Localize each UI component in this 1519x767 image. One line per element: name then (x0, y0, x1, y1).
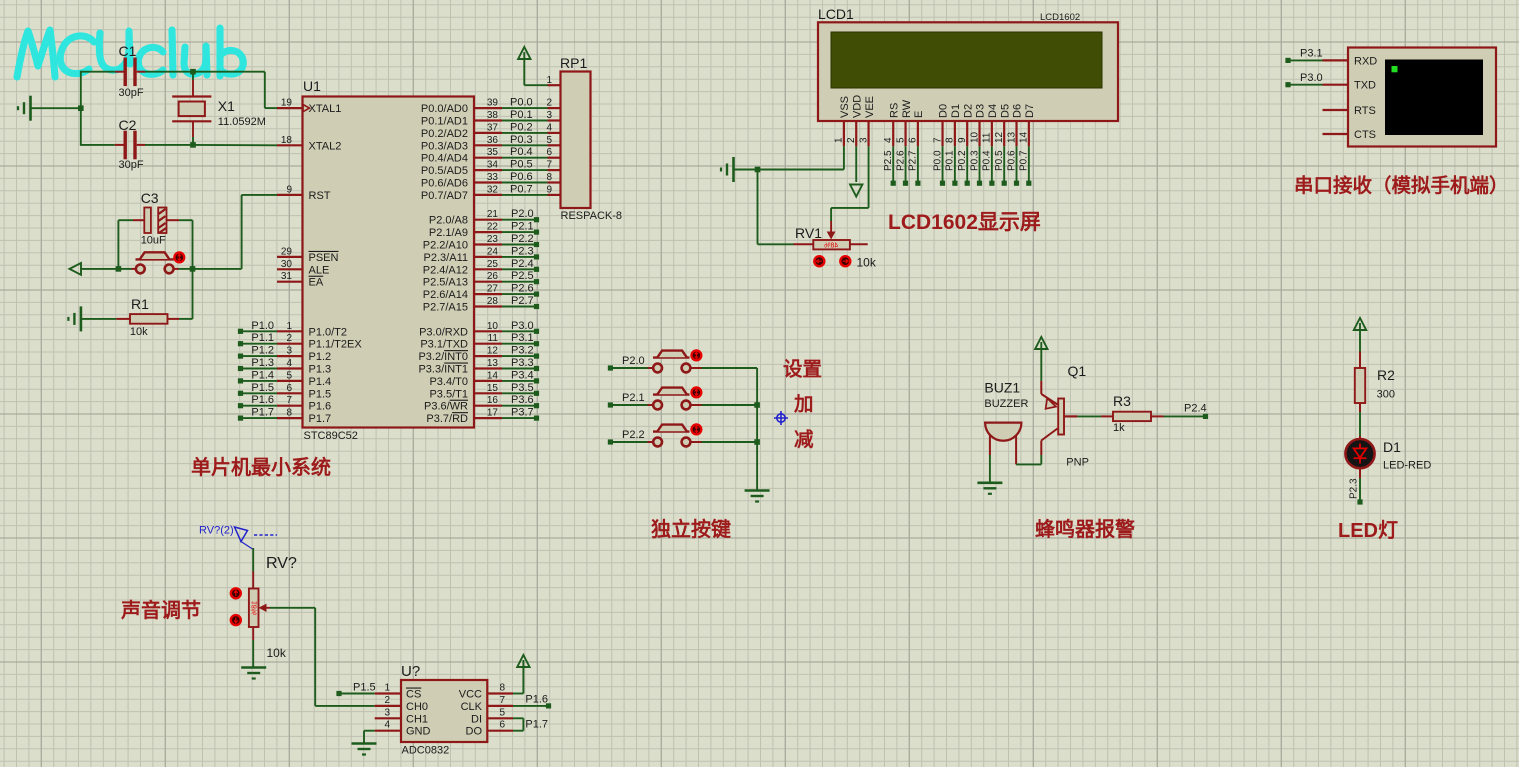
pin 18 XTAL2 (277, 144, 303, 146)
svg-text:P0.6: P0.6 (510, 171, 533, 183)
svg-text:10k: 10k (130, 326, 148, 338)
svg-text:P1.2: P1.2 (309, 351, 332, 363)
svg-text:19: 19 (281, 98, 293, 109)
svg-text:P0.5: P0.5 (510, 159, 533, 171)
svg-text:P3.2/INT0: P3.2/INT0 (418, 351, 468, 363)
push button key P2.1 (608, 402, 613, 407)
svg-text:11: 11 (982, 132, 993, 143)
svg-text:P1.4: P1.4 (309, 376, 332, 388)
svg-text:加: 加 (793, 394, 814, 416)
ADC pin 3 CH1 (375, 717, 401, 719)
svg-text:P1.3: P1.3 (251, 357, 274, 369)
svg-text:P1.5: P1.5 (251, 382, 274, 394)
pin 1 P1.0 (277, 330, 303, 332)
LCD pin 12 D5 (1003, 121, 1005, 146)
svg-text:10k: 10k (267, 646, 287, 660)
svg-text:34: 34 (487, 160, 499, 171)
LCD VDD power down arrow (855, 146, 857, 182)
node P3.0 (1285, 82, 1290, 87)
LCD pin 13 D6 (1015, 121, 1017, 146)
svg-text:Q1: Q1 (1068, 363, 1087, 379)
svg-text:P2.0: P2.0 (622, 355, 645, 367)
svg-text:30pF: 30pF (119, 87, 144, 99)
pin 29 PSEN (277, 256, 303, 258)
svg-text:15: 15 (487, 383, 499, 394)
svg-text:26: 26 (487, 271, 499, 282)
svg-text:9: 9 (546, 184, 552, 195)
svg-text:C3: C3 (141, 190, 159, 206)
svg-text:10: 10 (487, 321, 499, 332)
svg-text:LCD1: LCD1 (818, 6, 854, 22)
svg-text:D5: D5 (999, 104, 1011, 118)
svg-text:P2.2: P2.2 (622, 429, 645, 441)
wire junction to RV1 (757, 170, 759, 245)
svg-text:23: 23 (487, 234, 499, 245)
svg-text:P2.3: P2.3 (511, 245, 534, 257)
node P1.4 (238, 378, 243, 383)
wire C3 left vertical (117, 220, 119, 269)
terminal pin TXD (1323, 84, 1349, 86)
LCD pin 3 VEE (867, 121, 869, 146)
LCD wire net P0.3 (979, 146, 981, 181)
svg-text:RST: RST (309, 190, 331, 202)
svg-text:CH1: CH1 (406, 713, 428, 725)
svg-text:8: 8 (499, 683, 505, 694)
op-amp U1 body (STC89C52 MCU) (303, 97, 475, 428)
svg-text:P3.5/T1: P3.5/T1 (429, 388, 468, 400)
svg-text:P1.5: P1.5 (309, 388, 332, 400)
svg-text:35: 35 (487, 147, 499, 158)
svg-text:X1: X1 (218, 98, 235, 114)
ADC pin 2 CH0 (375, 705, 401, 707)
svg-text:独立按键: 独立按键 (651, 517, 731, 541)
ADC pin 8 VCC (487, 692, 513, 694)
svg-text:CH0: CH0 (406, 701, 428, 713)
svg-text:RXD: RXD (1354, 55, 1377, 67)
ADC VCC power (513, 693, 523, 695)
svg-text:STC89C52: STC89C52 (304, 430, 358, 442)
svg-text:D6: D6 (1012, 104, 1024, 118)
pin 5 P1.4 (277, 380, 303, 382)
wire C1 to X1 top (145, 71, 193, 73)
svg-text:RV1: RV1 (795, 225, 822, 241)
LCD wire net P0.4 (991, 146, 993, 181)
svg-text:D7: D7 (1024, 104, 1036, 118)
node P1.2 (238, 354, 243, 359)
wire R1 to reset node (192, 269, 194, 319)
svg-text:10k: 10k (857, 256, 877, 270)
svg-text:P2.0: P2.0 (511, 208, 534, 220)
potentiometer RV1 (830, 221, 832, 234)
LCD wire net P0.7 (1028, 146, 1030, 181)
RV? adjust buttons (231, 588, 241, 598)
svg-text:3: 3 (384, 707, 390, 718)
pin 6 P1.5 (277, 392, 303, 394)
svg-text:4: 4 (286, 358, 292, 369)
svg-text:U1: U1 (303, 78, 321, 94)
svg-text:RESPACK-8: RESPACK-8 (561, 210, 623, 222)
wire C1 row left (81, 71, 115, 73)
node P2.4 (1164, 415, 1204, 417)
MCUclub logo (17, 28, 243, 77)
cursor (1392, 66, 1398, 72)
svg-text:7: 7 (286, 395, 292, 406)
svg-text:4: 4 (883, 137, 894, 143)
svg-text:P2.3/A11: P2.3/A11 (424, 252, 468, 264)
LCD pin 9 D2 (966, 121, 968, 146)
svg-text:5: 5 (499, 707, 505, 718)
svg-text:设置: 设置 (783, 359, 822, 381)
svg-text:P2.5/A13: P2.5/A13 (423, 277, 468, 289)
RV1 adjust buttons (814, 256, 824, 266)
buzzer BUZ1 (985, 423, 1021, 441)
serial terminal (virtual phone) (1348, 48, 1496, 147)
svg-text:P3.6: P3.6 (511, 394, 534, 406)
svg-text:P3.7/RD: P3.7/RD (426, 413, 468, 425)
svg-text:13: 13 (1006, 131, 1017, 143)
ground (crystal section) (29, 96, 32, 121)
svg-text:48%: 48% (824, 242, 838, 249)
svg-text:12: 12 (487, 346, 499, 357)
capacitor C3 (electrolytic) (118, 219, 133, 221)
svg-text:P0.0/AD0: P0.0/AD0 (421, 103, 468, 115)
svg-text:BUZ1: BUZ1 (984, 380, 1020, 396)
svg-text:P0.3: P0.3 (969, 150, 980, 171)
svg-text:2: 2 (384, 695, 390, 706)
svg-text:蜂鸣器报警: 蜂鸣器报警 (1035, 517, 1135, 541)
svg-text:R2: R2 (1377, 367, 1395, 383)
LCD pin 10 D3 (978, 121, 980, 146)
svg-text:P3.1: P3.1 (511, 332, 534, 344)
LCD wire net P0.1 (954, 146, 956, 181)
svg-text:10uF: 10uF (141, 235, 166, 247)
pin 1 RP1 + power (548, 84, 561, 86)
svg-text:减: 减 (794, 428, 814, 451)
RV? wiper (259, 604, 267, 612)
svg-text:RV?(2): RV?(2) (199, 525, 234, 537)
svg-text:14: 14 (487, 370, 499, 381)
svg-text:5: 5 (286, 370, 292, 381)
node key2 junction (754, 402, 760, 408)
LCD VEE wire to RV1 wiper (868, 146, 870, 208)
LCD wire net P0.5 (1003, 146, 1005, 181)
LED D1 (1359, 436, 1361, 439)
svg-text:P0.1: P0.1 (510, 109, 533, 121)
svg-text:P0.2: P0.2 (957, 150, 968, 171)
svg-text:3: 3 (546, 110, 552, 121)
svg-text:D2: D2 (962, 104, 974, 118)
svg-text:7: 7 (546, 160, 552, 171)
svg-text:TXD: TXD (1354, 80, 1376, 92)
svg-text:4: 4 (384, 720, 390, 731)
LCD screen (831, 32, 1102, 88)
ground (ADC) (352, 742, 377, 745)
svg-text:2: 2 (546, 98, 552, 109)
svg-text:30pF: 30pF (119, 159, 144, 171)
svg-text:D1: D1 (950, 104, 962, 118)
svg-text:LED灯: LED灯 (1338, 519, 1398, 542)
svg-text:D3: D3 (975, 104, 987, 118)
node reset-right junction (190, 266, 196, 272)
svg-text:P3.0: P3.0 (511, 320, 534, 332)
svg-text:7: 7 (499, 695, 505, 706)
svg-text:36: 36 (487, 135, 499, 146)
crystal X1 (192, 72, 194, 80)
LCD wire net P0.2 (966, 146, 968, 181)
svg-text:LED-RED: LED-RED (1383, 460, 1431, 472)
svg-text:8: 8 (286, 408, 292, 419)
svg-text:P0.2/AD2: P0.2/AD2 (421, 128, 468, 140)
pin 2 P1.1 (277, 343, 303, 345)
node key3 junction (754, 439, 760, 445)
svg-text:18%: 18% (251, 601, 258, 615)
ground (keys) (745, 489, 770, 492)
wire gnd to node (31, 107, 81, 109)
svg-text:P3.4: P3.4 (511, 369, 534, 381)
svg-text:22: 22 (487, 222, 499, 233)
ADC pin 6 DO (487, 730, 513, 732)
node LCD gnd junction (755, 167, 761, 173)
LCD pin 5 RW (904, 121, 906, 146)
svg-text:P2.7/A15: P2.7/A15 (423, 302, 468, 314)
capacitor C2 (81, 144, 115, 146)
node P1.5 (238, 391, 243, 396)
push button (reset) (118, 268, 131, 270)
svg-text:P2.4: P2.4 (1184, 403, 1207, 415)
LCD pin 7 D0 (941, 121, 943, 146)
svg-text:R3: R3 (1113, 393, 1131, 409)
svg-text:P1.6: P1.6 (525, 694, 548, 706)
push button key P2.0 (608, 365, 613, 370)
resistor R2 (1359, 352, 1361, 369)
power (LED) (1354, 318, 1366, 330)
svg-text:P2.1/A9: P2.1/A9 (429, 227, 468, 239)
LCD pin 4 RS (892, 121, 894, 146)
node P1.5 (336, 691, 341, 696)
DI-DO loop net P1.7 (513, 717, 523, 719)
keys common wire (756, 368, 758, 491)
svg-text:VDD: VDD (851, 95, 863, 118)
svg-text:P1.6: P1.6 (309, 401, 332, 413)
svg-text:P2.3: P2.3 (1349, 478, 1360, 499)
ground (buzzer) (977, 481, 1002, 484)
svg-text:P3.2: P3.2 (511, 345, 534, 357)
svg-text:P1.5: P1.5 (353, 682, 376, 694)
svg-text:38: 38 (487, 110, 499, 121)
svg-text:RTS: RTS (1354, 105, 1376, 117)
RV? bottom to ground (252, 627, 254, 640)
svg-text:P0.7/AD7: P0.7/AD7 (421, 190, 468, 202)
wire left vertical C1-C2 (80, 71, 82, 146)
svg-text:10: 10 (969, 131, 980, 143)
capacitor C1 (115, 71, 124, 73)
svg-text:6: 6 (286, 383, 292, 394)
ADC pin 1 CS (375, 692, 401, 694)
svg-text:P2.5: P2.5 (883, 150, 894, 171)
svg-text:7: 7 (932, 137, 943, 143)
svg-text:300: 300 (1377, 389, 1395, 401)
svg-text:27: 27 (487, 284, 499, 295)
svg-text:ALE: ALE (309, 264, 330, 276)
svg-text:串口接收（模拟手机端）: 串口接收（模拟手机端） (1294, 174, 1509, 197)
terminal pin CTS (1323, 133, 1349, 135)
potentiometer RV? (252, 548, 254, 572)
svg-text:P0.3: P0.3 (510, 134, 533, 146)
node reset-left junction (116, 266, 122, 272)
svg-text:28: 28 (487, 296, 499, 307)
LCD1 LCD1602 body (818, 22, 1118, 121)
LCD pin 1 VSS (843, 121, 845, 146)
svg-text:33: 33 (487, 172, 499, 183)
svg-text:XTAL2: XTAL2 (309, 140, 342, 152)
svg-text:D0: D0 (938, 104, 950, 118)
svg-text:13: 13 (487, 358, 499, 369)
resistor pack RP1 RESPACK-8 (561, 72, 591, 209)
svg-text:PSEN: PSEN (309, 252, 339, 264)
pin 8 P1.7 (277, 417, 303, 419)
svg-text:6: 6 (499, 720, 505, 731)
svg-text:P2.6: P2.6 (511, 283, 534, 295)
node P3.1 (1285, 58, 1290, 63)
svg-text:ADC0832: ADC0832 (402, 745, 450, 757)
svg-text:P2.2/A10: P2.2/A10 (423, 240, 468, 252)
svg-text:VCC: VCC (459, 689, 482, 701)
wire top to XTAL1 (193, 71, 265, 73)
svg-text:P3.0: P3.0 (1300, 72, 1323, 84)
pin 4 P1.3 (277, 367, 303, 369)
svg-text:8: 8 (546, 172, 552, 183)
svg-text:18: 18 (281, 135, 293, 146)
svg-text:P1.1/T2EX: P1.1/T2EX (309, 339, 363, 351)
ground (LCD) (732, 157, 735, 182)
svg-text:25: 25 (487, 259, 499, 270)
svg-text:P1.0: P1.0 (251, 320, 274, 332)
svg-text:3: 3 (858, 137, 869, 143)
svg-text:CLK: CLK (461, 701, 483, 713)
svg-text:P2.7: P2.7 (908, 150, 919, 171)
svg-text:DO: DO (466, 726, 483, 738)
svg-text:PNP: PNP (1066, 457, 1089, 469)
svg-text:1: 1 (384, 683, 390, 694)
ADC pin 4 GND (375, 730, 401, 732)
pin 31 EA (277, 281, 303, 283)
svg-text:RW: RW (901, 99, 913, 118)
node P1.7 (238, 416, 243, 421)
svg-text:P1.0/T2: P1.0/T2 (309, 326, 348, 338)
node P1.1 (238, 341, 243, 346)
crosshair marker (774, 411, 788, 425)
svg-text:D1: D1 (1383, 439, 1401, 455)
svg-text:24: 24 (487, 246, 499, 257)
svg-text:2: 2 (846, 137, 857, 143)
svg-text:P2.5: P2.5 (511, 270, 534, 282)
svg-text:8: 8 (945, 137, 956, 143)
svg-text:16: 16 (487, 395, 499, 406)
svg-text:P1.7: P1.7 (309, 413, 332, 425)
svg-text:P3.4/T0: P3.4/T0 (429, 376, 468, 388)
svg-text:P2.7: P2.7 (511, 295, 534, 307)
svg-text:P0.5: P0.5 (994, 150, 1005, 171)
svg-text:P1.4: P1.4 (251, 369, 274, 381)
svg-text:EA: EA (309, 277, 324, 289)
svg-text:P0.1: P0.1 (945, 150, 956, 171)
push button key P2.2 (608, 439, 613, 444)
wire reset node to RST pin (193, 268, 242, 270)
ADC pin 5 DI (487, 717, 513, 719)
LCD pin 2 VDD (855, 121, 857, 146)
svg-text:2: 2 (286, 333, 292, 344)
svg-text:P0.2: P0.2 (510, 121, 533, 133)
terminal pin RTS (1323, 109, 1349, 111)
terminal pin RXD (1323, 59, 1349, 61)
pin 7 P1.6 (277, 405, 303, 407)
node P1.0 (238, 329, 243, 334)
svg-text:6: 6 (546, 147, 552, 158)
wire C3 right vertical (192, 220, 194, 269)
node X1 bottom junction (190, 142, 196, 148)
svg-text:12: 12 (994, 131, 1005, 143)
base wire to R3 (1064, 415, 1077, 417)
resistor R3 (1101, 415, 1113, 417)
node P1.6 (513, 705, 546, 707)
svg-text:声音调节: 声音调节 (120, 598, 201, 622)
svg-text:C2: C2 (119, 117, 137, 133)
svg-text:P2.1: P2.1 (511, 221, 534, 233)
svg-text:37: 37 (487, 122, 499, 133)
wire bottom to XTAL2 (193, 144, 277, 146)
LCD wire net P2.5 (892, 146, 894, 181)
svg-text:P0.4: P0.4 (510, 146, 533, 158)
svg-text:5: 5 (895, 137, 906, 143)
svg-text:P2.4/A12: P2.4/A12 (423, 264, 468, 276)
svg-text:P2.6: P2.6 (895, 150, 906, 171)
LCD wire net P0.6 (1016, 146, 1018, 181)
svg-text:P2.0/A8: P2.0/A8 (429, 215, 468, 227)
ADC GND wire (364, 730, 375, 732)
pin 9 RST (277, 194, 303, 196)
svg-text:P3.5: P3.5 (511, 382, 534, 394)
svg-text:P0.3/AD3: P0.3/AD3 (421, 140, 468, 152)
svg-text:11: 11 (488, 333, 499, 344)
resistor R1 (80, 306, 83, 331)
LCD VSS wire to ground (843, 146, 845, 169)
svg-text:D4: D4 (987, 104, 999, 118)
wire wiper to ADC CH0 (314, 608, 316, 706)
svg-text:30: 30 (281, 259, 293, 270)
svg-text:VSS: VSS (839, 96, 851, 118)
svg-text:GND: GND (406, 726, 431, 738)
input arrow (reset) (70, 263, 82, 275)
svg-text:9: 9 (957, 137, 968, 143)
svg-text:P0.7: P0.7 (510, 183, 533, 195)
node crystal-left junction (78, 105, 84, 111)
svg-text:31: 31 (281, 271, 293, 282)
svg-text:11.0592M: 11.0592M (218, 116, 266, 128)
svg-text:P2.4: P2.4 (511, 258, 534, 270)
svg-text:4: 4 (546, 122, 552, 133)
svg-text:P0.0: P0.0 (932, 150, 943, 171)
LCD wire net P0.0 (942, 146, 944, 181)
svg-text:P2.6/A14: P2.6/A14 (423, 289, 468, 301)
svg-text:5: 5 (546, 135, 552, 146)
svg-text:3: 3 (286, 346, 292, 357)
svg-text:VEE: VEE (864, 96, 876, 118)
svg-text:P3.1/TXD: P3.1/TXD (420, 339, 468, 351)
node P2.3 (1359, 468, 1361, 478)
LCD wire net P2.6 (905, 146, 907, 181)
wire C2 to X1 bottom (145, 144, 193, 146)
svg-text:1: 1 (546, 75, 552, 86)
